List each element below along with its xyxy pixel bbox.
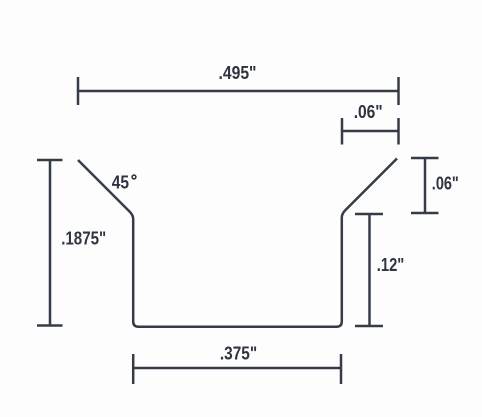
- degree symbol of 45: [132, 175, 136, 179]
- dimension .1875" top tick: [37, 159, 63, 162]
- dimension .06" (top right) left tick: [341, 118, 344, 145]
- dimension .1875" bottom tick: [37, 324, 63, 327]
- dimension .12" bottom tick: [355, 325, 383, 328]
- dimension .06" (top right) line: [342, 130, 399, 133]
- dimension .12" line: [368, 214, 371, 326]
- dimension .375" line: [133, 367, 341, 370]
- dimension .06" (right side) line: [424, 158, 427, 213]
- svg-text:45: 45: [112, 172, 129, 192]
- dimension .06" (top right) right tick: [397, 118, 400, 145]
- dimension .375" left tick: [132, 354, 135, 384]
- dimension .06" (right side) top tick: [411, 157, 439, 160]
- dimension .495" left tick: [77, 77, 80, 105]
- dimension .495" line: [78, 90, 399, 93]
- dimension .375" right tick: [340, 354, 343, 384]
- dimension .12" top tick: [355, 213, 383, 216]
- svg-text:.06": .06": [432, 174, 459, 194]
- dimension .1875" line: [49, 160, 52, 326]
- svg-text:.06": .06": [354, 102, 383, 122]
- svg-text:.1875": .1875": [61, 228, 106, 248]
- dimension .06" (right side) bottom tick: [411, 212, 439, 215]
- svg-text:.375": .375": [220, 344, 257, 364]
- svg-text:.12": .12": [377, 255, 405, 275]
- svg-text:.495": .495": [219, 63, 257, 83]
- profile outline (channel cross-section): [78, 159, 397, 327]
- dimension .495" right tick: [397, 77, 400, 105]
